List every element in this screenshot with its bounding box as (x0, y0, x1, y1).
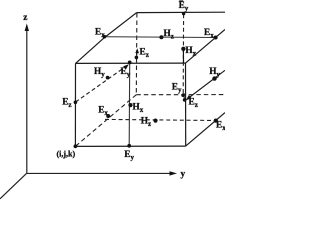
hidden back-bottom edge (136, 94, 225, 96)
svg-text:Ez: Ez (62, 98, 71, 110)
node Ex1 (103, 35, 107, 39)
front face connector line Ey-Hx-Ey (128, 62, 131, 146)
y axis (27, 171, 178, 175)
cube top-left depth edge (76, 13, 137, 64)
node Hx1 (181, 47, 185, 51)
cube top-right depth edge (186, 30, 226, 64)
svg-text:Hz: Hz (141, 117, 151, 129)
node Hx2 (128, 103, 132, 107)
svg-text:Ex: Ex (95, 28, 105, 40)
Ez3 vector arrow (183, 93, 185, 100)
z axis (25, 24, 29, 174)
svg-text:Ey: Ey (172, 83, 182, 95)
hidden back-left vertical edge (135, 13, 138, 95)
node Ez3 (183, 98, 187, 102)
svg-text:Ez: Ez (140, 48, 149, 60)
svg-text:Hz: Hz (164, 29, 174, 41)
cube front-bottom edge (75, 145, 185, 147)
cube bottom-right depth edge (186, 113, 225, 147)
svg-text:Hy: Hy (209, 67, 220, 79)
back face dashed connector Ey-Hx-Ey (182, 14, 184, 95)
label Ey-bar top (179, 1, 189, 13)
svg-text:Hy: Hy (94, 67, 105, 79)
svg-text:Hx: Hx (185, 46, 196, 58)
node Ex3 (214, 119, 218, 123)
svg-text:Ey: Ey (179, 1, 189, 13)
node Ey-bar (182, 12, 185, 15)
node Hz1 (159, 35, 163, 39)
Hx1 arrow solid segment (182, 49, 184, 63)
hidden bottom-left depth edge (76, 95, 137, 146)
svg-text:Ey: Ey (124, 150, 134, 162)
node corner i,j,k (74, 144, 78, 148)
cube back-top edge (137, 11, 225, 13)
svg-text:z: z (23, 13, 27, 23)
svg-text:Ex: Ex (216, 121, 225, 133)
svg-text:Ex: Ex (204, 28, 214, 40)
node Ey3 (181, 93, 185, 97)
left face dashed connector Ez-Hy-Ey (76, 64, 129, 102)
svg-text:Hx: Hx (133, 103, 144, 115)
top face connector line Ex-Hz-Ex (104, 36, 215, 39)
node Ey1 (128, 61, 132, 65)
node Ey4 (127, 144, 131, 148)
node Ex2 (214, 36, 218, 40)
cube front-right edge (185, 63, 187, 146)
right face connector line Ez-Hy (186, 70, 225, 100)
x axis (0, 173, 27, 198)
node Hy2 (212, 76, 216, 80)
node Ez2 (74, 101, 78, 105)
svg-text:Ez: Ez (189, 98, 198, 110)
node Hz2 (153, 119, 157, 123)
node Ez1 (135, 56, 139, 60)
svg-text:(i,j,k): (i,j,k) (57, 150, 76, 159)
bottom face dashed connector Ex-Hz-Ex (105, 119, 216, 120)
cube front-left edge (74, 63, 76, 146)
Ez1 vector arrow (135, 48, 139, 57)
svg-text:y: y (181, 170, 186, 180)
svg-text:Ex: Ex (98, 106, 108, 118)
node Ex4 (106, 114, 110, 118)
cube front-top edge (76, 62, 186, 64)
node Hy1 (106, 76, 110, 80)
